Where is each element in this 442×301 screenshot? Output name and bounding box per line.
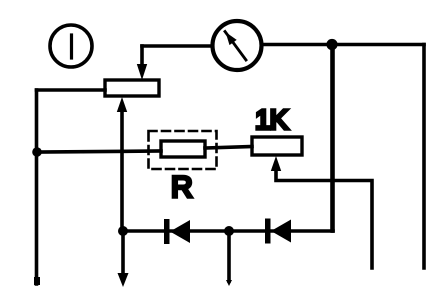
svg-text:1K: 1K <box>255 104 289 135</box>
node B (junction dot left) <box>32 147 42 157</box>
wire: arrow into pot top <box>140 46 144 66</box>
indicator I1 (circle with I) <box>50 25 92 67</box>
wire: M1 right to top-right corner <box>262 43 424 47</box>
wire: bottom rail <box>123 229 333 233</box>
node A (junction dot top) <box>326 39 337 50</box>
diode D2 <box>265 219 291 244</box>
node C (junction dot bottom-left) <box>118 226 128 236</box>
wire: left rail vertical <box>35 90 39 284</box>
wire: junction down to bottom rail <box>330 45 334 232</box>
wire: terminal arrow down (left) <box>121 231 125 274</box>
meter M1 <box>213 21 262 70</box>
wire: pot wiper arrow up <box>117 97 127 112</box>
wire: mid horizontal to R <box>37 151 161 152</box>
wire: pot top corner to M1 left <box>142 44 211 48</box>
wire: right-edge vertical <box>422 45 426 269</box>
wire: R2 wiper arrow up <box>271 156 281 171</box>
resistor R1 body <box>161 141 205 157</box>
resistor R2 (1K) <box>252 137 302 155</box>
svg-text:R: R <box>171 171 193 204</box>
wire: pot left to left rail <box>37 88 106 92</box>
wire: R to R2 <box>205 147 252 149</box>
wire: terminal down (middle) <box>227 231 231 281</box>
resistor R1 (dashed enclosure) <box>149 131 217 169</box>
diode D1 <box>164 219 190 244</box>
potentiometer P1 <box>105 80 159 96</box>
wire: bottom rail up to node A <box>331 45 335 232</box>
node D (junction dot bottom-middle) <box>224 226 234 236</box>
